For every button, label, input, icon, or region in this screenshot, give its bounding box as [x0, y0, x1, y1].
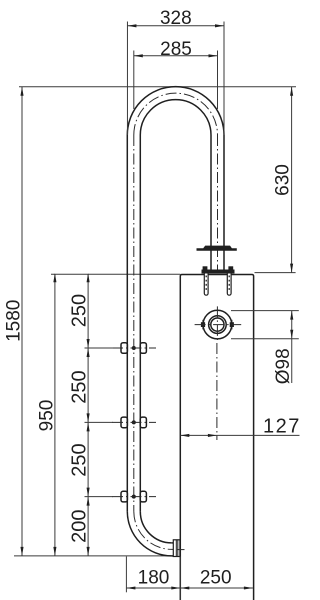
deck / wall section rectangle [180, 275, 253, 600]
svg-text:127: 127 [263, 415, 301, 437]
svg-text:250: 250 [200, 568, 232, 589]
anchor stud right [227, 274, 231, 296]
chain dim line 250/250/250/200 [69, 273, 113, 556]
svg-text:1580: 1580 [4, 300, 25, 342]
right leg centerline [217, 135, 219, 270]
tube inner top arc [140, 100, 211, 135]
socket centerline extension down to 127 dim [216, 343, 218, 440]
anchor socket circle outer [203, 310, 232, 339]
tube outer top arc [127, 87, 224, 135]
svg-text:328: 328 [160, 8, 192, 29]
svg-text:950: 950 [37, 400, 58, 432]
bottom tube horizontal lines [172, 542, 174, 544]
clip 1 [112, 343, 156, 354]
svg-text:285: 285 [160, 39, 192, 60]
right leg inner line [210, 135, 212, 270]
tube centerline top arc [134, 93, 218, 135]
dim 180 / 250 bottom [126, 557, 252, 600]
stud threads [205, 276, 207, 292]
left leg inner line [139, 135, 141, 511]
bottom reference extension line [14, 555, 173, 557]
water/deck level line (top reference) [19, 86, 296, 88]
deck surface extension line left [51, 273, 180, 275]
bottom wall flange outline [173, 540, 180, 557]
deck surface extension line right (630 bottom) [255, 272, 296, 274]
dim 1580 [4, 87, 25, 556]
anchor socket bore [211, 318, 224, 331]
anchor socket ring [209, 316, 227, 334]
right leg outer line [223, 135, 225, 270]
bottom flange centerline tick [177, 549, 185, 551]
svg-text:180: 180 [138, 568, 170, 589]
left leg centerline [133, 135, 135, 511]
clip 2 [112, 417, 156, 428]
svg-text:250: 250 [69, 294, 91, 327]
svg-text:250: 250 [69, 443, 91, 476]
dim 950 [37, 273, 58, 556]
mounting plate (dark) [202, 270, 235, 274]
escutcheon flange on right leg [197, 246, 237, 251]
bolt nut left [203, 266, 208, 273]
bottom bend inner [140, 511, 172, 543]
dim 630 [273, 87, 294, 273]
bottom bend outer [127, 511, 172, 556]
bottom bend centerline [134, 511, 174, 549]
clamp screw right [230, 322, 234, 327]
dim 328 [127, 8, 224, 135]
clamp screw left [201, 322, 205, 327]
dim 285 [134, 39, 218, 109]
socket horizontal centerline [195, 324, 242, 326]
svg-text:630: 630 [273, 164, 294, 196]
svg-text:200: 200 [69, 510, 91, 543]
socket vertical centerline [216, 306, 218, 340]
clip 3 [112, 491, 156, 502]
left leg outer line [126, 135, 128, 511]
dim O98 [231, 311, 299, 385]
bolt nut right [228, 266, 233, 273]
svg-text:250: 250 [69, 370, 91, 403]
svg-text:Ø98: Ø98 [273, 348, 294, 384]
dim 127 [180, 415, 301, 437]
anchor stud left [204, 274, 208, 296]
